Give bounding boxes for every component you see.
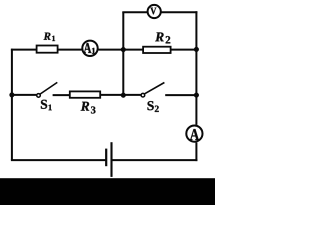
wire switch row: S2 contact to right rail (165, 94, 196, 96)
wire right rail upper (195, 11, 197, 125)
label S1 (41, 100, 52, 110)
value label R2 (155, 32, 170, 43)
wire switch row: R3 to S2 (101, 94, 141, 96)
wire left rail (11, 49, 13, 160)
switch S1 pivot (37, 94, 41, 98)
scan artifact black bar (0, 178, 215, 205)
wire top row: R1 to A1 (59, 49, 82, 51)
label S2 (148, 101, 159, 112)
wire right rail lower (195, 142, 197, 161)
ammeter A (186, 126, 202, 142)
node junction middle-switch-row (121, 93, 126, 98)
wire switch row: left rail to S1 (12, 94, 37, 96)
battery negative plate (short) (105, 149, 107, 167)
value label R1 (44, 33, 56, 41)
wire switch row: S1 contact to R3 (53, 94, 70, 96)
resistor R1 (37, 46, 58, 53)
wire voltmeter loop top-left (122, 11, 147, 13)
switch S2 blade (145, 83, 165, 94)
node junction right-top (194, 47, 199, 52)
wire top row: R2 to right rail (171, 49, 196, 51)
wire top row: A1 to middle node (98, 49, 142, 51)
ammeter A1 (82, 41, 97, 56)
wire middle vertical branch (122, 12, 124, 95)
wire top row: left corner to R1 (11, 49, 37, 51)
node junction left-switch-row (10, 93, 15, 98)
switch S1 blade (40, 82, 57, 94)
node junction middle-top (121, 47, 126, 52)
resistor R2 (143, 47, 171, 53)
wire bottom row right (113, 159, 198, 161)
switch S2 pivot (141, 93, 145, 97)
wire bottom row left (11, 159, 106, 161)
value label R3 (81, 102, 96, 114)
battery positive plate (long) (110, 142, 112, 177)
wire voltmeter loop top-right (161, 11, 198, 13)
node junction right-switch-row (194, 93, 199, 98)
resistor R3 (70, 91, 100, 97)
voltmeter V (148, 5, 161, 18)
